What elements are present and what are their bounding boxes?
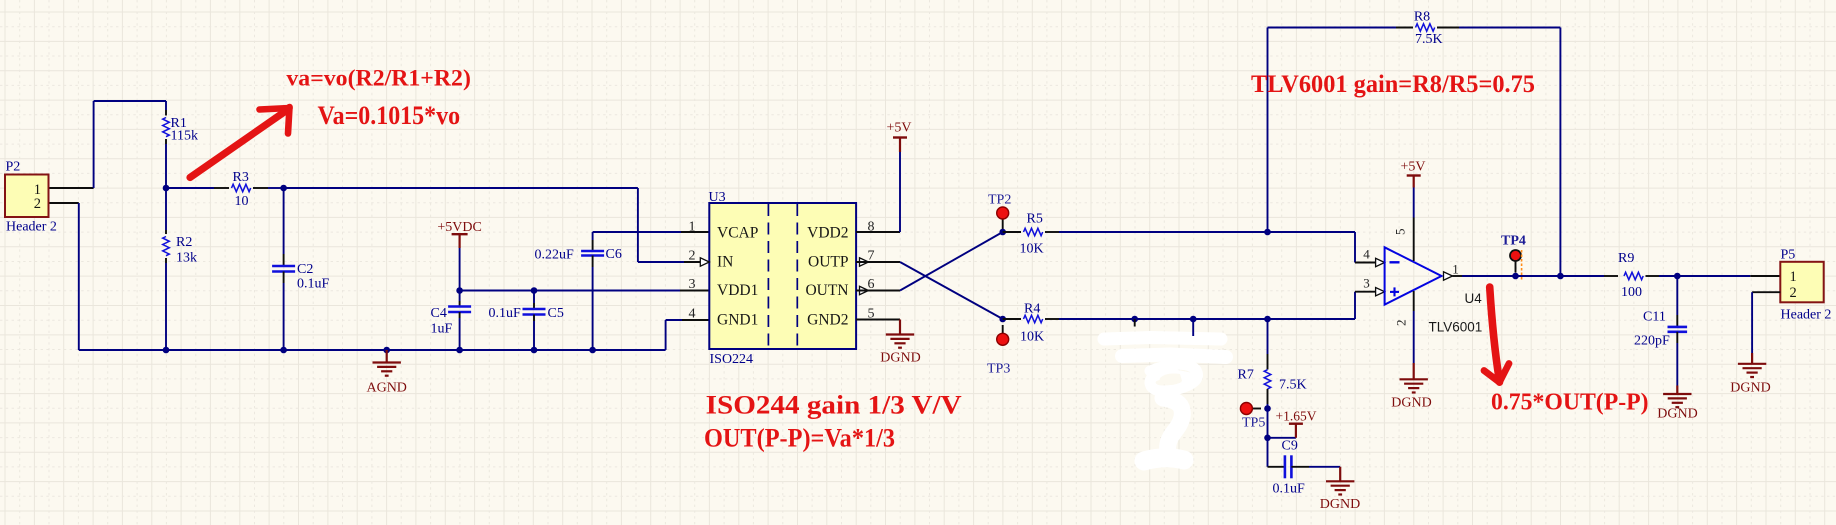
svg-text:3: 3 <box>1363 276 1370 291</box>
svg-text:OUT(P-P)=Va*1/3: OUT(P-P)=Va*1/3 <box>704 424 895 453</box>
wire R3 to IN pin <box>284 188 701 262</box>
svg-text:0.1uF: 0.1uF <box>489 306 522 321</box>
svg-text:1: 1 <box>689 220 696 235</box>
svg-text:TP2: TP2 <box>988 193 1011 208</box>
svg-text:TP3: TP3 <box>987 362 1010 377</box>
svg-text:7.5K: 7.5K <box>1279 378 1307 393</box>
wire OUTN diagonal <box>900 232 1003 291</box>
stub junction a <box>1131 316 1138 323</box>
op-amp U3 ISO224 body <box>709 190 857 367</box>
svg-text:+1.65V: +1.65V <box>1276 409 1317 424</box>
testpoint TP3 <box>987 325 1010 377</box>
svg-text:DGND: DGND <box>880 351 920 366</box>
wire to non-inverting input <box>1355 288 1385 320</box>
svg-text:VCAP: VCAP <box>717 225 758 242</box>
wire analog ground rail <box>79 203 710 350</box>
capacitor C9 <box>1268 438 1341 497</box>
svg-text:Va=0.1015*vo: Va=0.1015*vo <box>318 101 461 130</box>
svg-text:IN: IN <box>717 254 733 271</box>
resistor R7 <box>1238 316 1307 409</box>
svg-text:C9: C9 <box>1282 439 1298 454</box>
power port +5V (VDD2) <box>856 121 911 233</box>
svg-text:R7: R7 <box>1238 368 1254 383</box>
svg-text:7.5K: 7.5K <box>1415 32 1443 47</box>
svg-text:10K: 10K <box>1020 242 1044 257</box>
svg-text:C6: C6 <box>606 247 622 262</box>
svg-text:R4: R4 <box>1024 302 1040 317</box>
wire VDD1 <box>460 290 710 292</box>
wire P2 pin1 to riser <box>49 187 94 189</box>
wire OUTP stub <box>856 261 900 263</box>
wire output <box>1453 273 1605 280</box>
svg-text:TLV6001 gain=R8/R5=0.75: TLV6001 gain=R8/R5=0.75 <box>1251 71 1535 98</box>
svg-text:va=vo(R2/R1+R2): va=vo(R2/R1+R2) <box>286 66 471 91</box>
op-amp U4 TLV6001 <box>1363 247 1482 335</box>
resistor R8 <box>1414 10 1561 277</box>
svg-text:10K: 10K <box>1020 330 1044 345</box>
stub junction b <box>1190 316 1197 323</box>
svg-text:TLV6001: TLV6001 <box>1429 320 1483 335</box>
svg-text:1uF: 1uF <box>431 322 453 337</box>
svg-text:0.1uF: 0.1uF <box>1273 482 1306 497</box>
svg-text:DGND: DGND <box>1730 381 1770 396</box>
svg-text:0.22uF: 0.22uF <box>535 248 575 263</box>
svg-text:R5: R5 <box>1027 212 1043 227</box>
junction at C2 tap <box>280 185 287 192</box>
svg-text:R2: R2 <box>176 235 192 250</box>
svg-text:Header 2: Header 2 <box>6 220 57 235</box>
node A junction <box>163 185 170 192</box>
svg-text:TP5: TP5 <box>1242 416 1265 431</box>
svg-text:0.1uF: 0.1uF <box>297 277 330 292</box>
testpoint TP4 <box>1501 234 1526 281</box>
svg-text:U4: U4 <box>1465 291 1483 306</box>
svg-text:+5VDC: +5VDC <box>437 220 481 235</box>
svg-text:C11: C11 <box>1643 310 1666 325</box>
svg-text:2: 2 <box>1790 285 1797 301</box>
svg-text:OUTN: OUTN <box>805 282 848 299</box>
capacitor C2 <box>272 188 329 350</box>
svg-text:4: 4 <box>689 307 696 322</box>
junction +5VDC/VDD1 <box>456 287 463 294</box>
wire to P5 pin1 <box>1677 275 1780 277</box>
ground DGND (C9) <box>1320 467 1360 512</box>
junction C4-rail <box>456 347 463 354</box>
svg-text:OUTP: OUTP <box>808 254 848 271</box>
svg-text:DGND: DGND <box>1391 396 1431 411</box>
svg-text:2: 2 <box>34 196 41 212</box>
testpoint TP2 <box>988 193 1011 233</box>
svg-text:13k: 13k <box>176 251 197 266</box>
resistor R4 <box>1003 302 1355 345</box>
capacitor C4 <box>431 291 472 351</box>
svg-text:VDD1: VDD1 <box>717 282 758 299</box>
svg-text:115k: 115k <box>171 129 198 144</box>
svg-text:2: 2 <box>689 249 696 264</box>
svg-text:100: 100 <box>1621 285 1642 300</box>
svg-text:DGND: DGND <box>1657 407 1697 422</box>
wire P5 pin2 to ground <box>1752 292 1780 353</box>
ground AGND <box>366 347 406 396</box>
ground DGND (GND2) <box>856 320 921 366</box>
svg-text:P5: P5 <box>1781 248 1796 263</box>
wire OUTN stub <box>856 290 900 292</box>
svg-text:3: 3 <box>689 277 696 292</box>
power port +5VDC <box>437 220 481 291</box>
svg-text:C2: C2 <box>297 262 313 277</box>
ground DGND (U4) <box>1391 291 1431 411</box>
svg-text:+5V: +5V <box>1400 160 1425 175</box>
svg-text:AGND: AGND <box>366 381 406 396</box>
svg-text:GND2: GND2 <box>807 312 848 329</box>
connector P5 <box>1780 248 1831 323</box>
svg-text:10: 10 <box>235 194 249 209</box>
resistor R3 <box>166 170 284 209</box>
wire pin1 riser to R1 top <box>94 101 166 188</box>
svg-text:ISO224: ISO224 <box>710 352 754 367</box>
svg-text:C4: C4 <box>431 306 447 321</box>
svg-text:DGND: DGND <box>1320 497 1360 512</box>
svg-text:1: 1 <box>1790 269 1797 285</box>
erased watermark blob <box>1104 338 1226 462</box>
svg-text:P2: P2 <box>6 160 21 175</box>
op-amp output arrow <box>1444 272 1453 280</box>
svg-text:U3: U3 <box>709 190 726 205</box>
svg-text:GND1: GND1 <box>717 312 758 329</box>
power port +1.65V <box>1264 409 1317 442</box>
junction C2-rail <box>280 347 287 354</box>
svg-text:4: 4 <box>1363 247 1370 262</box>
pin 6 OUTN arrow <box>860 286 869 294</box>
resistor R5 <box>1003 212 1355 257</box>
svg-text:R8: R8 <box>1414 10 1430 25</box>
wire P2 pin2 stub <box>49 202 79 204</box>
svg-text:2: 2 <box>1394 320 1409 327</box>
svg-text:VDD2: VDD2 <box>807 225 848 242</box>
svg-text:1: 1 <box>1452 262 1459 277</box>
resistor R2 <box>163 188 197 350</box>
connector P2 <box>5 160 57 235</box>
ground DGND (C11) <box>1657 386 1697 422</box>
svg-text:R3: R3 <box>233 170 249 185</box>
svg-text:C5: C5 <box>548 306 564 321</box>
wire feedback left leg <box>1264 28 1413 236</box>
resistor R1 <box>163 116 198 188</box>
power port +5V (U4) <box>1393 160 1426 262</box>
svg-text:TP4: TP4 <box>1501 234 1526 249</box>
svg-text:5: 5 <box>1393 229 1408 236</box>
svg-text:+5V: +5V <box>886 121 911 136</box>
svg-text:R9: R9 <box>1618 251 1634 266</box>
svg-text:0.75*OUT(P-P): 0.75*OUT(P-P) <box>1491 390 1649 416</box>
capacitor C5 <box>489 287 564 353</box>
pin 2 IN arrow <box>700 258 709 266</box>
wire to inverting input <box>1355 232 1385 267</box>
junction TP3/R4 <box>999 316 1006 323</box>
svg-text:220pF: 220pF <box>1634 334 1670 349</box>
wire OUTP diagonal <box>900 262 1003 319</box>
svg-text:Header 2: Header 2 <box>1781 308 1832 323</box>
junction TP2/R5 <box>999 229 1006 236</box>
red arrow 2 <box>1484 287 1509 383</box>
testpoint TP5 <box>1240 403 1270 431</box>
ground DGND (P5) <box>1730 353 1770 396</box>
capacitor C11 <box>1634 273 1687 386</box>
red arrow 1 <box>190 107 290 178</box>
pin 7 OUTP arrow <box>860 258 869 266</box>
resistor R9 <box>1604 251 1677 300</box>
junction R2-rail <box>163 347 170 354</box>
svg-text:ISO244 gain 1/3 V/V: ISO244 gain 1/3 V/V <box>706 391 962 420</box>
capacitor C6 <box>535 232 711 353</box>
